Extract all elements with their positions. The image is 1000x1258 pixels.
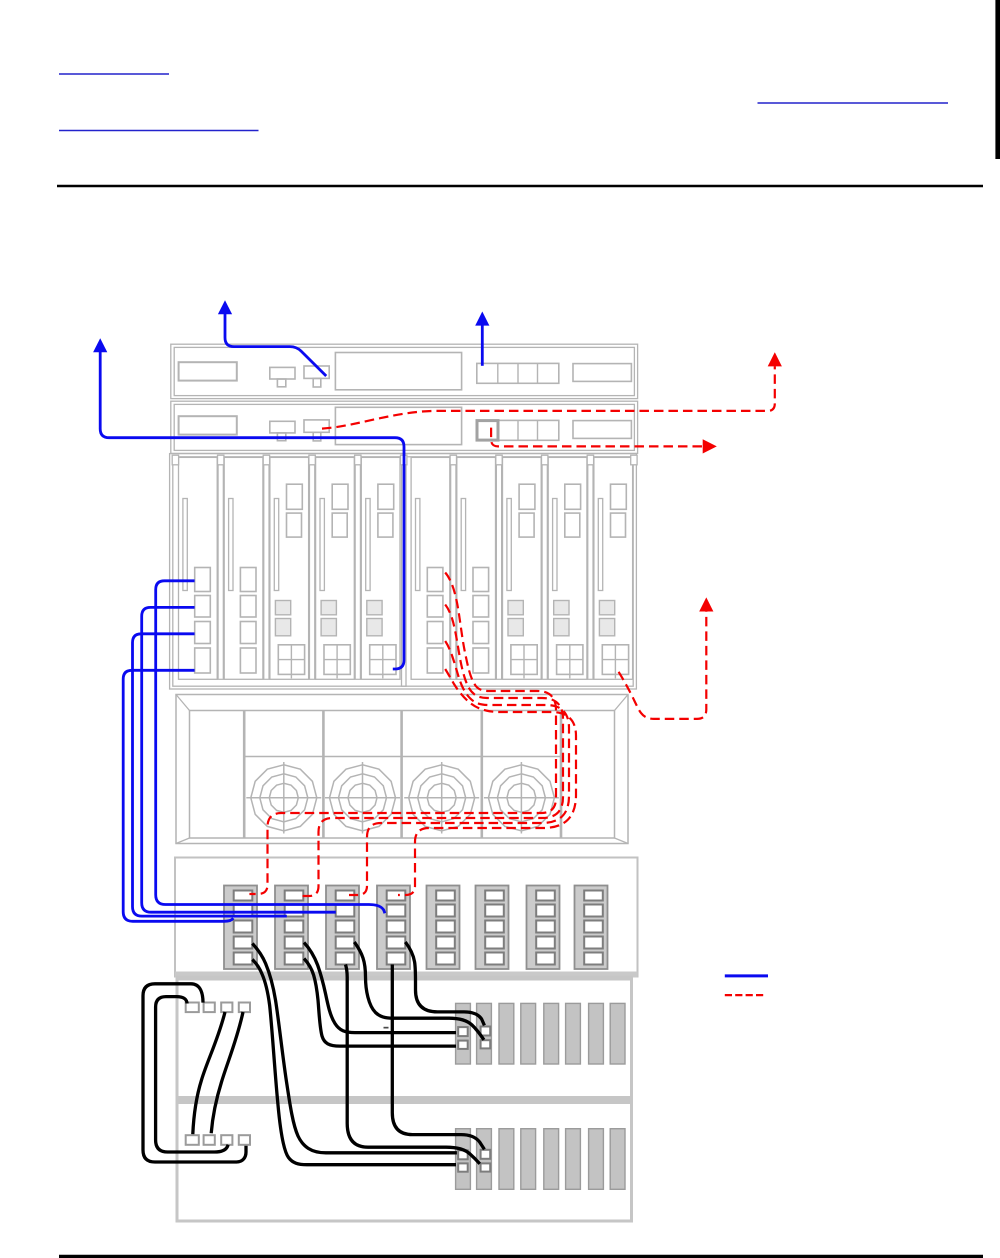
power shelf frame bbox=[175, 858, 638, 977]
card c9 status blocks bbox=[554, 601, 569, 615]
card c4 upper modules bbox=[332, 484, 348, 509]
card c6 connector column bbox=[427, 568, 443, 592]
shelf1 outer frame bbox=[171, 344, 638, 398]
card c10 status blocks bbox=[599, 601, 614, 615]
card c9 port grid bbox=[557, 645, 583, 675]
blue cable shelf1 port to arrow C bbox=[481, 325, 484, 366]
link underline top-left bbox=[59, 73, 169, 75]
fan 1 bbox=[246, 762, 321, 834]
blue arrow B (aux cable up) bbox=[93, 338, 107, 352]
blue cable card1 port3 to power block2 bbox=[133, 634, 287, 916]
fan 3 bbox=[404, 762, 479, 834]
card c2 handle bbox=[229, 499, 233, 591]
card c3 status blocks bbox=[275, 601, 290, 615]
shelf2 large display rect bbox=[335, 407, 461, 444]
card c2 body bbox=[224, 457, 263, 679]
card c9 upper modules bbox=[565, 484, 581, 509]
header rule bbox=[57, 185, 983, 187]
red arrow E (alarm cable right) bbox=[703, 439, 717, 453]
card c5 upper modules bbox=[378, 484, 394, 509]
stray hyphen artifact bbox=[384, 1027, 389, 1029]
card c4 body bbox=[316, 457, 355, 679]
black cable block4 to lower tray bar2 top bbox=[392, 965, 484, 1150]
black jumper upper-S4 to lower-T2 bbox=[211, 1012, 243, 1133]
black jumper upper-S2 to lower-T4 (outer loop) bbox=[143, 984, 246, 1162]
card c10 upper modules bbox=[611, 484, 627, 509]
shelf1 connector J2 bbox=[304, 366, 329, 378]
black cable block1 to lower tray bar1 bottom bbox=[252, 960, 456, 1165]
blower module outer bbox=[176, 695, 628, 844]
card c1 body bbox=[179, 457, 218, 679]
card c9 body bbox=[548, 457, 587, 679]
card c8 port grid bbox=[511, 645, 537, 675]
card c3 upper modules bbox=[287, 484, 303, 509]
red cable card6 port4 to power block4 bbox=[398, 669, 576, 895]
lower cable tray frame bbox=[177, 1101, 632, 1221]
card c8 body bbox=[503, 457, 542, 679]
upper cable tray terminal squares bbox=[186, 1003, 199, 1013]
power connector block 2 bbox=[275, 886, 308, 970]
card c6 body bbox=[411, 457, 450, 679]
power connector block 8 bbox=[575, 886, 608, 970]
blue arrow A (console cable up) bbox=[218, 300, 232, 314]
card cage frame bbox=[170, 454, 637, 689]
shelf1 right display rect bbox=[573, 364, 631, 382]
power connector block 7 bbox=[527, 886, 560, 970]
black jumper upper-S1 to lower-T3 (inner loop) bbox=[156, 997, 229, 1152]
black jumper upper-S3 to lower-T1 bbox=[193, 1012, 225, 1134]
card c4 handle bbox=[320, 499, 324, 591]
card c4 port grid bbox=[324, 645, 350, 675]
ejector tabs bbox=[172, 455, 178, 465]
red cable card10 grid to arrow F bbox=[619, 612, 707, 719]
legend: blue cable sample bbox=[725, 974, 768, 977]
black cable block2 to upper tray bar1 top bbox=[304, 943, 456, 1033]
black cable block1 to lower tray bar1 top bbox=[252, 944, 457, 1153]
card c5 port grid bbox=[370, 645, 396, 675]
shelf2 right display rect bbox=[573, 421, 631, 439]
power connector block 6 bbox=[476, 886, 509, 970]
power connector block 5 bbox=[427, 886, 460, 970]
shelf2 left display rect bbox=[179, 416, 237, 434]
card c3 port grid bbox=[278, 645, 304, 675]
blower bevel lines bbox=[176, 695, 628, 844]
blue cable arrow B to card5 port grid bbox=[100, 352, 404, 670]
power connector block 4 bbox=[377, 886, 410, 970]
blue cable card1 port2 to power block3 bbox=[142, 607, 336, 912]
shelf2 connector J2 bbox=[304, 420, 329, 432]
upper cable tray fuse bars bbox=[456, 1003, 471, 1064]
red cable card6 port3 to power block3 bbox=[349, 641, 569, 895]
red arrow D (alarm cable up) bbox=[768, 352, 782, 366]
blue arrow C (ethernet up) bbox=[475, 312, 489, 326]
red cable card6 port1 to power block1 bbox=[249, 573, 556, 895]
blue cable card1 port4 to power block1 bbox=[123, 670, 233, 921]
card c6 handle bbox=[416, 499, 420, 591]
card c1 handle bbox=[183, 499, 187, 591]
card c8 upper modules bbox=[519, 484, 535, 509]
link underline top-right bbox=[758, 102, 949, 104]
black cable block4 to upper tray bar2 top bbox=[405, 942, 484, 1025]
shelf2 4-port row bbox=[477, 420, 559, 440]
card c2 connector column bbox=[240, 568, 256, 592]
footer rule bbox=[59, 1255, 983, 1258]
card c7 connector column bbox=[473, 568, 489, 592]
chapter edge tab bbox=[995, 0, 1000, 159]
card c10 handle bbox=[598, 499, 602, 591]
card guide rails bbox=[218, 457, 223, 679]
card c10 body bbox=[594, 457, 633, 679]
card c9 handle bbox=[553, 499, 557, 591]
upper cable tray frame bbox=[177, 978, 632, 1098]
card c5 body bbox=[361, 457, 400, 679]
card c1 connector column bbox=[195, 568, 211, 592]
card cage center divider bbox=[402, 457, 407, 686]
lower cable tray terminal squares bbox=[186, 1135, 199, 1145]
blower dividers bbox=[243, 711, 246, 839]
card c8 status blocks bbox=[508, 601, 523, 615]
blue cable card1 port1 to power block4 bbox=[156, 581, 385, 913]
card c10 port grid bbox=[602, 645, 628, 675]
red cable shelf2-J2 to arrow D bbox=[322, 366, 775, 428]
red cable card6 port2 to power block2 bbox=[301, 605, 564, 897]
fan 4 bbox=[484, 762, 559, 834]
shelf2 connector J1 bbox=[270, 421, 295, 433]
legend: red cable sample bbox=[725, 994, 763, 996]
shelf1 left display rect bbox=[179, 362, 237, 380]
blue cable shelf1-J2 to arrow A bbox=[225, 314, 326, 377]
card c3 handle bbox=[274, 499, 278, 591]
card c7 body bbox=[457, 457, 496, 679]
black cable block3 to upper tray bar2 bottom bbox=[354, 942, 484, 1040]
fan 2 bbox=[325, 762, 400, 834]
blower module inner bbox=[190, 711, 615, 839]
lower cable tray fuse bars bbox=[456, 1129, 471, 1190]
card c8 handle bbox=[507, 499, 511, 591]
red arrow F (card10 cable up) bbox=[699, 597, 713, 611]
card c5 status blocks bbox=[367, 601, 382, 615]
shelf2 outer frame bbox=[171, 401, 638, 453]
shelf2 port 1 (highlighted) bbox=[477, 421, 498, 441]
upper cable tray bar contact squares bbox=[458, 1027, 468, 1036]
link underline second-left bbox=[59, 130, 259, 132]
card c4 status blocks bbox=[321, 601, 336, 615]
card c7 handle bbox=[461, 499, 465, 591]
black cable block3 to lower tray bar2 bottom bbox=[346, 965, 480, 1164]
shelf1 large display rect bbox=[335, 353, 461, 390]
card c5 handle bbox=[366, 499, 370, 591]
shelf1 connector J1 bbox=[270, 367, 295, 379]
red cable shelf2 port1 to arrow E bbox=[491, 428, 703, 447]
lower cable tray bar contact squares bbox=[458, 1150, 468, 1159]
power connector block 3 bbox=[326, 886, 359, 970]
card c3 body bbox=[270, 457, 309, 679]
power connector block 1 bbox=[224, 886, 257, 970]
shelf1 4-port row bbox=[477, 363, 559, 383]
black cable block2 to upper tray bar1 bottom bbox=[304, 959, 456, 1047]
